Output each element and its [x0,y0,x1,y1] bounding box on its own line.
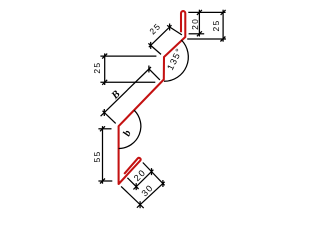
tick dim30 lower [139,201,141,208]
tick dim25 top [221,10,226,15]
svg-text:30: 30 [139,182,155,198]
tick dim25left top [102,54,107,59]
extension from P6 [121,186,144,208]
svg-text:20: 20 [132,167,148,183]
dim 30 (bottom) line [137,182,165,208]
tick dim55 top [100,126,105,131]
dim 25 (top right) line [222,10,224,42]
svg-text:25: 25 [211,19,221,31]
dim 20 (top hem) line [198,10,200,37]
tick dim55 bottom [100,179,105,184]
extension from hem end E [127,178,138,189]
tick dim20bottom upper [151,168,153,175]
tick dim30 upper [162,180,164,187]
left 25 top extension [100,55,156,57]
extension from P3 [148,43,161,54]
tick dim25 bottom [220,37,225,42]
svg-text:135°: 135° [165,46,184,72]
extension from fold F [143,163,165,186]
angle arc b at mid vertex [119,110,141,148]
svg-text:25: 25 [147,21,163,37]
dim 55 line [102,126,104,184]
svg-text:55: 55 [92,150,102,162]
tick dimB lower [103,109,105,116]
extension from P2 [167,25,182,35]
tick dim25diag lower [150,42,152,49]
tick dimB upper [148,66,150,73]
55 bottom extension [98,180,112,182]
dim 25 bottom extension [187,38,226,40]
tick dim25left bottom [102,80,107,85]
svg-text:20: 20 [190,18,200,30]
extension from P4 [149,69,160,80]
svg-text:25: 25 [92,62,102,74]
svg-text:B: B [109,89,122,102]
55 top extension [98,128,111,130]
dim B line [101,67,151,116]
dim 20 bottom extension [189,33,205,35]
dim 25 (left) line [104,53,106,85]
angle arc 135deg at upper jog vertex [164,40,188,81]
tick dim20 top [197,10,202,15]
svg-text:b: b [122,129,134,138]
tick dim25diag upper [169,24,171,31]
top shared extension line [188,11,225,13]
flashing profile (red sheet metal cross-section) [119,11,186,184]
tick dim20 bottom [197,31,202,36]
left 25 bottom extension [100,81,155,83]
tick dim20bottom lower [135,183,137,190]
dim 25 diagonal line [149,25,172,47]
extension from P5 [103,111,116,124]
dim 20 (bottom) line [133,170,153,190]
